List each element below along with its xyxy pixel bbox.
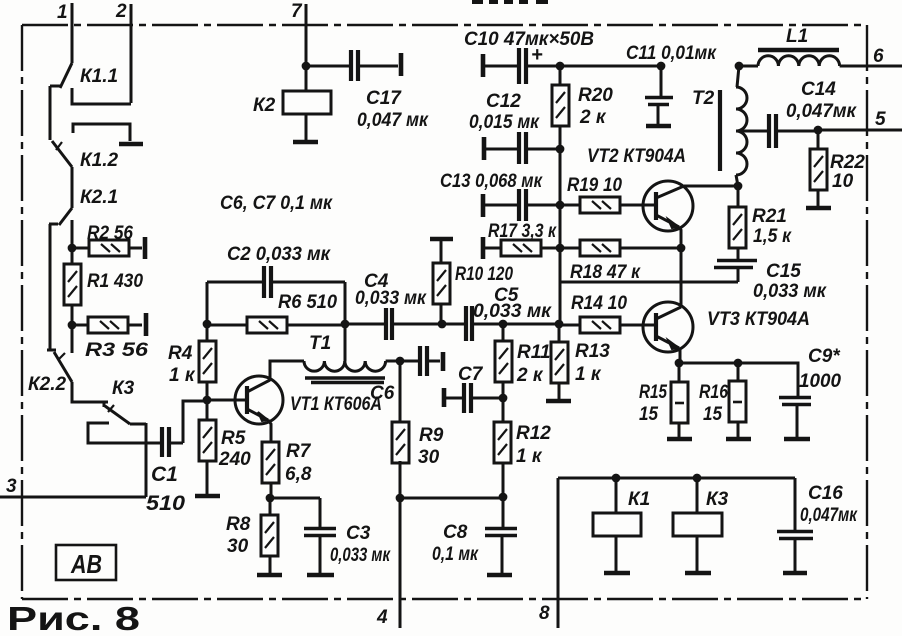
pin 6 — [739, 46, 902, 67]
wire C2 right drop — [344, 282, 347, 324]
svg-text:VT3 КТ904А: VT3 КТ904А — [707, 309, 810, 330]
node C13/R19 junction — [556, 201, 565, 210]
capacitor C16 — [777, 478, 858, 573]
svg-text:К2: К2 — [253, 95, 276, 116]
svg-text:С6, С7 0,1 мк: С6, С7 0,1 мк — [220, 193, 333, 214]
svg-text:0,033 мк: 0,033 мк — [330, 545, 391, 566]
wire VT3 emitter down — [679, 348, 680, 363]
svg-text:R18 47 к: R18 47 к — [570, 262, 641, 283]
relay contact K2.2 — [47, 350, 72, 382]
svg-text:R21: R21 — [752, 206, 787, 227]
frame remnants of cropped title — [472, 0, 548, 4]
svg-text:1 к: 1 к — [516, 446, 543, 467]
node bus/R13 — [555, 320, 564, 329]
svg-text:С10 47мк×50В: С10 47мк×50В — [464, 29, 594, 50]
svg-text:5: 5 — [875, 109, 886, 130]
svg-text:К3: К3 — [112, 378, 135, 399]
capacitor C7 — [444, 364, 503, 413]
relay coil K3 — [673, 478, 729, 573]
relay contact K1.2 fixed contact — [73, 124, 143, 144]
svg-text:С11 0,01мк: С11 0,01мк — [626, 43, 717, 64]
node R17/R18 junction — [556, 244, 565, 253]
pin 8 — [539, 478, 558, 628]
pin 3 — [0, 476, 146, 497]
resistor R13 — [551, 324, 610, 400]
node pin4 / C8 bus left — [396, 494, 405, 503]
node R4 top — [203, 320, 212, 329]
svg-text:0,033 мк: 0,033 мк — [753, 281, 827, 302]
svg-text:К1.2: К1.2 — [80, 150, 119, 171]
pin 5 — [818, 109, 902, 130]
ground R5 — [195, 494, 220, 499]
node R6/C2/T1 junction — [341, 320, 350, 329]
resistor R17 — [483, 221, 560, 259]
wire VT2 collector to T2 — [684, 185, 738, 188]
svg-text:4: 4 — [376, 607, 388, 628]
capacitor C3 — [270, 498, 391, 575]
resistor R7 — [262, 441, 312, 498]
svg-text:R5: R5 — [221, 428, 246, 449]
svg-text:10: 10 — [832, 171, 854, 192]
resistor R21 — [729, 186, 792, 259]
svg-text:1 к: 1 к — [169, 365, 196, 386]
transistor VT2 — [587, 146, 693, 231]
svg-text:К2.1: К2.1 — [80, 187, 118, 208]
capacitor C15 — [714, 261, 827, 303]
svg-text:R4: R4 — [168, 343, 193, 364]
wire K3 throw to pin3 rail — [130, 423, 146, 497]
resistor R15 — [639, 363, 688, 437]
svg-text:Т1: Т1 — [309, 333, 331, 354]
resistor R11 — [495, 324, 550, 398]
node K1 top — [612, 474, 621, 483]
svg-text:15: 15 — [703, 404, 722, 425]
svg-text:0,047мк: 0,047мк — [786, 101, 857, 122]
svg-text:АВ: АВ — [70, 549, 102, 579]
capacitor C8 — [432, 497, 517, 575]
svg-text:6: 6 — [873, 46, 884, 67]
node R2/R1 junction — [68, 244, 77, 253]
capacitor C2 — [207, 244, 345, 298]
svg-text:С13 0,068 мк: С13 0,068 мк — [440, 171, 543, 192]
svg-text:2 к: 2 к — [579, 107, 607, 128]
svg-text:30: 30 — [418, 447, 440, 468]
svg-text:0,033 мк: 0,033 мк — [473, 301, 552, 322]
node R20/C12 junction — [556, 145, 565, 154]
svg-text:С7: С7 — [458, 364, 484, 385]
resistor R16 — [699, 363, 746, 437]
pin 2 — [115, 1, 131, 103]
wire stub below R3 node (K2.2 fixed contact) — [71, 325, 74, 353]
inductor L1 — [758, 50, 840, 66]
capacitor C11 — [626, 43, 717, 126]
svg-text:R7: R7 — [286, 441, 312, 462]
node T1 right / R9 top — [396, 357, 405, 366]
wire VT1 collector to T1 — [270, 361, 304, 381]
capacitor C14 — [736, 79, 857, 148]
wire C2 left drop — [206, 282, 209, 324]
svg-text:С14: С14 — [801, 79, 836, 100]
transformer T2 — [720, 66, 747, 186]
svg-text:0,015 мк: 0,015 мк — [469, 112, 540, 133]
svg-text:К1.1: К1.1 — [80, 66, 118, 87]
svg-text:L1: L1 — [786, 26, 808, 47]
svg-text:1: 1 — [57, 2, 68, 23]
svg-text:VT2 КТ904А: VT2 КТ904А — [587, 146, 686, 167]
ground R15 — [667, 437, 692, 442]
svg-text:R19 10: R19 10 — [567, 175, 622, 196]
ground R13 — [546, 399, 571, 404]
svg-text:8: 8 — [539, 603, 550, 624]
svg-text:1 к: 1 к — [575, 364, 602, 385]
wire K2.1 pivot down to R2 node — [71, 220, 74, 248]
svg-text:R9: R9 — [419, 425, 444, 446]
svg-text:R6 510: R6 510 — [278, 292, 337, 313]
relay contact K2.1 — [49, 208, 72, 225]
capacitor C12 — [469, 91, 560, 164]
wire K3 NC bracket to C1 — [88, 423, 160, 443]
node K2 top — [302, 62, 311, 71]
capacitor C5 — [442, 285, 552, 341]
relay contact K3 — [104, 402, 130, 424]
svg-text:R17 3,3 к: R17 3,3 к — [488, 221, 557, 242]
transformer T1 — [304, 361, 400, 383]
wire K1.2 to K2.1 — [71, 167, 74, 208]
svg-text:+: + — [531, 44, 543, 66]
svg-text:0,047мк: 0,047мк — [800, 505, 858, 526]
relay contact K1.1 — [50, 63, 131, 104]
svg-text:R11: R11 — [517, 342, 550, 363]
node R1/R3 junction — [68, 321, 77, 330]
capacitor C13 — [440, 171, 560, 221]
node R10 bottom — [438, 320, 447, 329]
wire left rail K2.1 to K2.2 — [49, 224, 52, 349]
wire VT2 emitter down — [679, 227, 681, 248]
resistor R2 — [72, 223, 145, 259]
pin 4 — [376, 461, 400, 628]
wire emitter bus to C9 — [679, 363, 798, 396]
svg-text:К1: К1 — [628, 489, 650, 510]
svg-text:15: 15 — [639, 404, 658, 425]
relay coil K2 — [253, 66, 331, 142]
svg-text:0,047 мк: 0,047 мк — [357, 110, 429, 131]
resistor R9 — [392, 361, 444, 498]
svg-text:30: 30 — [227, 536, 249, 557]
svg-text:R3 56: R3 56 — [85, 340, 149, 361]
svg-text:6,8: 6,8 — [285, 464, 312, 485]
pin 7 — [291, 1, 306, 66]
node K3 top — [693, 474, 702, 483]
relay coil K1 — [593, 478, 650, 573]
svg-text:1000: 1000 — [799, 371, 841, 392]
node T2 top — [735, 62, 744, 71]
wire T1 center tap — [344, 324, 347, 361]
svg-text:7: 7 — [291, 1, 303, 22]
node R16 top — [734, 359, 743, 368]
capacitor C6 — [370, 346, 443, 404]
resistor R4 — [168, 324, 216, 400]
resistor R14 — [559, 293, 655, 333]
wire relay coil bus — [558, 477, 795, 480]
ground R16 — [726, 437, 751, 442]
svg-text:0,033 мк: 0,033 мк — [355, 288, 427, 309]
svg-text:С6: С6 — [370, 383, 395, 404]
resistor R3 — [72, 313, 149, 361]
svg-text:С15: С15 — [766, 261, 801, 282]
capacitor C17 — [306, 50, 429, 131]
svg-text:R1 430: R1 430 — [87, 271, 143, 292]
ground R8 — [257, 573, 282, 578]
svg-text:R14 10: R14 10 — [571, 293, 627, 314]
wire R9 bottom bus to C8 — [400, 497, 503, 500]
svg-text:С9*: С9* — [808, 346, 841, 367]
svg-text:R20: R20 — [578, 85, 613, 106]
pin 1 — [57, 2, 72, 63]
wire left rail from K1.1 — [49, 86, 52, 140]
node VT2 emitter / R18 — [677, 244, 686, 253]
svg-text:VT1 КТ606А: VT1 КТ606А — [290, 394, 382, 415]
wire bus C5 to R14 — [503, 323, 559, 326]
svg-text:R12: R12 — [516, 423, 551, 444]
svg-text:R16: R16 — [699, 382, 728, 403]
node R7/R8/C3 junction — [266, 494, 275, 503]
svg-text:R2 56: R2 56 — [87, 223, 133, 244]
svg-text:510: 510 — [146, 492, 185, 515]
svg-text:3: 3 — [6, 476, 17, 497]
resistor R1 — [64, 248, 143, 325]
transistor VT3 — [643, 302, 810, 352]
wire K2.2 to K3 — [72, 382, 108, 402]
module label A8 box — [56, 545, 116, 580]
node C10/R20 top — [556, 62, 565, 71]
resistor R8 — [226, 498, 278, 573]
wire base bias line to C15 — [559, 281, 738, 284]
svg-text:0,1 мк: 0,1 мк — [432, 544, 479, 565]
node VT1 base — [203, 396, 212, 405]
resistor R5 — [199, 400, 251, 494]
node C14/R22 — [814, 126, 823, 135]
wire C1 to VT1 base node — [183, 401, 207, 443]
node T2 bottom / R21 top — [734, 182, 743, 191]
wire VT1 emitter to R7 — [268, 420, 271, 442]
resistor R19 — [560, 175, 655, 213]
resistor R22 — [810, 130, 865, 206]
node C8 top — [499, 493, 508, 502]
svg-text:R22: R22 — [830, 152, 865, 173]
svg-text:С17: С17 — [366, 88, 402, 109]
resistor R12 — [494, 398, 551, 497]
resistor R20 — [552, 66, 613, 149]
svg-text:R10 120: R10 120 — [455, 264, 513, 285]
svg-text:R13: R13 — [575, 341, 610, 362]
svg-text:С2 0,033 мк: С2 0,033 мк — [227, 244, 331, 265]
resistor R18 — [560, 240, 681, 283]
transistor VT1 — [207, 376, 382, 424]
svg-text:С1: С1 — [151, 463, 178, 486]
svg-text:С8: С8 — [443, 522, 468, 543]
svg-text:К3: К3 — [706, 489, 729, 510]
relay contact K1.2 blade — [52, 141, 72, 167]
capacitor C9 — [779, 346, 841, 439]
wire top bus to C11 — [560, 65, 661, 68]
svg-text:R8: R8 — [226, 514, 251, 535]
svg-text:1,5 к: 1,5 к — [753, 226, 792, 247]
svg-text:2: 2 — [115, 1, 127, 22]
svg-text:240: 240 — [218, 449, 251, 470]
svg-text:С16: С16 — [808, 483, 843, 504]
svg-text:Рис. 8: Рис. 8 — [7, 600, 140, 636]
node R11/R12/C7 junction — [499, 394, 508, 403]
svg-text:С12: С12 — [486, 91, 521, 112]
capacitor C1 — [146, 427, 185, 515]
node VT3 emitter — [675, 359, 684, 368]
ground R22 — [806, 206, 831, 211]
svg-text:К2.2: К2.2 — [28, 374, 67, 395]
resistor R6 — [207, 292, 345, 333]
wire rail 559 — [559, 149, 562, 324]
svg-text:R15: R15 — [639, 382, 667, 403]
capacitor C10 electrolytic — [464, 29, 594, 84]
node R11 top — [499, 320, 508, 329]
svg-text:С3: С3 — [346, 523, 371, 544]
svg-text:Т2: Т2 — [692, 88, 715, 109]
resistor R10 — [430, 239, 513, 324]
svg-text:2 к: 2 к — [516, 365, 544, 386]
wire VT2 emitter to VT3 collector — [680, 248, 683, 306]
capacitor C4 — [345, 271, 441, 340]
